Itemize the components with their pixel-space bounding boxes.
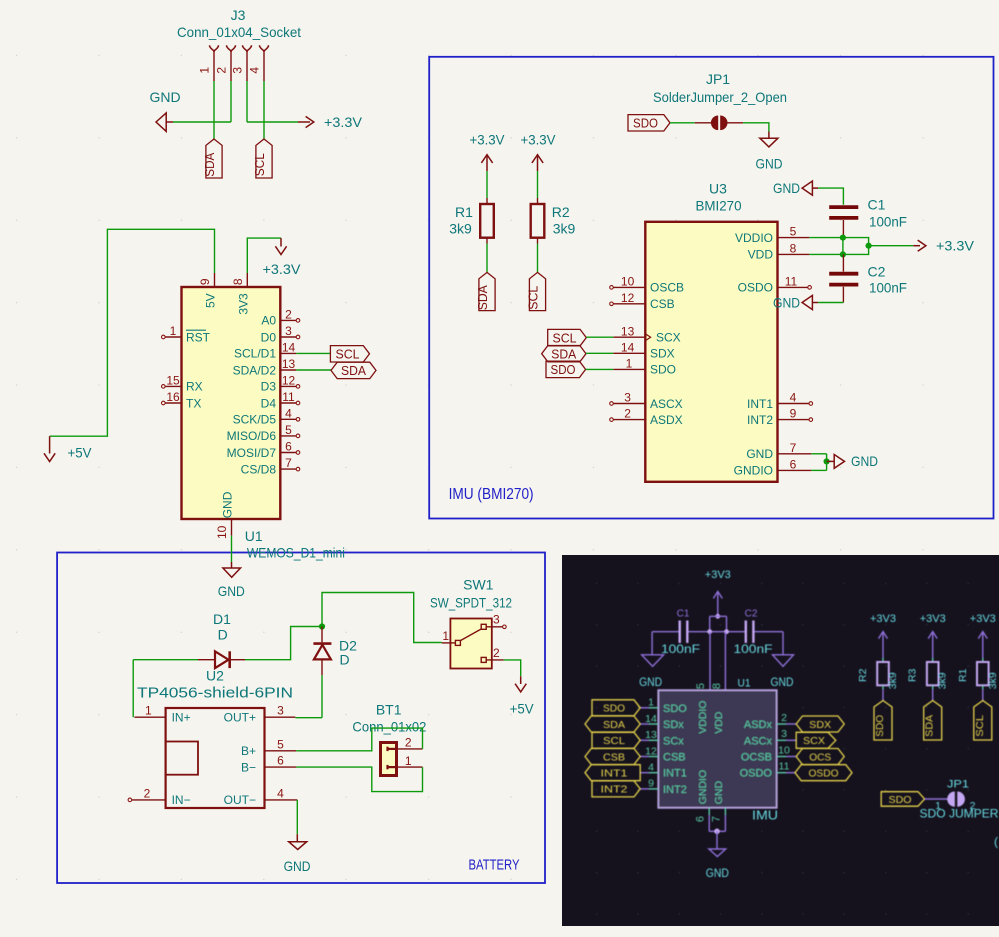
svg-text:IMU (BMI270): IMU (BMI270) [449, 486, 534, 503]
net label SDO at JP1 [628, 115, 670, 131]
net label SCL at U1 [330, 346, 369, 362]
svg-text:4: 4 [790, 391, 797, 405]
svg-text:INT1: INT1 [601, 768, 628, 780]
svg-text:SDA: SDA [341, 363, 366, 378]
svg-text:5: 5 [695, 683, 707, 689]
svg-text:12: 12 [282, 373, 296, 387]
svg-text:SDO: SDO [633, 116, 658, 131]
svg-text:SDX: SDX [809, 719, 831, 731]
dark grid dots [596, 583, 598, 585]
pin 2 of SW1 [481, 657, 486, 662]
svg-text:2: 2 [405, 736, 412, 750]
net label SDA at U1 [331, 362, 376, 378]
svg-text:13: 13 [645, 729, 657, 741]
pin 6 (B-) of U2 [265, 766, 297, 768]
wire R2 to label [537, 244, 539, 273]
dark net label SDO under R2 [874, 701, 892, 741]
svg-text:3k9: 3k9 [987, 672, 999, 689]
svg-text:+3V3: +3V3 [705, 569, 731, 581]
wire +3.3V to R2 [537, 171, 539, 198]
svg-text:+3.3V: +3.3V [521, 132, 557, 148]
dark net label INT2 left [592, 781, 640, 797]
pin 2 (IN-) of U2 [132, 799, 166, 801]
wire D1 to D2 junction [245, 627, 322, 660]
dark wire R2 to label [882, 689, 884, 701]
svg-text:+3.3V: +3.3V [936, 238, 975, 254]
power symbol GND under JP1 [768, 132, 770, 139]
svg-text:TP4056-shield-6PIN: TP4056-shield-6PIN [137, 685, 293, 701]
svg-text:BATTERY: BATTERY [469, 856, 520, 873]
svg-text:R1: R1 [455, 204, 473, 220]
connector BT1 body [381, 743, 397, 776]
svg-text:RST: RST [186, 330, 211, 344]
power symbol +5V at SW1 [520, 676, 522, 684]
svg-text:2: 2 [144, 787, 151, 801]
svg-text:IMU: IMU [752, 808, 778, 823]
svg-text:SolderJumper_2_Open: SolderJumper_2_Open [653, 89, 787, 105]
dark pin 9 (INT2) left [649, 788, 658, 790]
svg-text:D: D [218, 627, 228, 643]
svg-text:SCL: SCL [336, 347, 360, 362]
svg-text:CSB: CSB [663, 752, 686, 764]
dark pin 1 (SDO) left [649, 707, 658, 709]
svg-text:VDDIO: VDDIO [697, 701, 709, 734]
dark GND symbol right [782, 632, 784, 655]
svg-text:9: 9 [198, 278, 212, 285]
dark pin 10 (OCSB) right [777, 756, 786, 758]
svg-text:U1: U1 [738, 677, 751, 689]
dark IC U1 IMU body [658, 690, 776, 808]
svg-text:+5V: +5V [68, 444, 93, 460]
dark net label CSB left [585, 749, 640, 765]
svg-text:14: 14 [645, 713, 657, 725]
wire U1 SDA/D2 to SDA label [296, 369, 331, 371]
dark +3V3 arrow R2 [879, 632, 888, 639]
svg-text:MISO/D6: MISO/D6 [227, 429, 277, 443]
dark net label SCL left [592, 732, 640, 748]
junction at U3 GND [824, 458, 830, 464]
svg-text:7: 7 [790, 441, 797, 455]
svg-text:SDA: SDA [924, 715, 936, 737]
dark junction left [707, 629, 712, 634]
pin 4 (SCK/D5) of U1 [280, 418, 296, 420]
svg-text:100nF: 100nF [869, 214, 907, 230]
svg-text:GNDIO: GNDIO [697, 770, 709, 804]
net label SCL under R2 [529, 272, 545, 310]
junction at VDD C2 [840, 251, 846, 257]
svg-text:SCL: SCL [252, 153, 267, 176]
svg-text:+3.3V: +3.3V [263, 261, 302, 277]
svg-text:SW_SPDT_312: SW_SPDT_312 [430, 595, 512, 611]
junction at D1 D2 SW1 [319, 623, 325, 629]
wire R1 to label [486, 244, 488, 273]
svg-text:R3: R3 [907, 668, 919, 682]
svg-text:GND: GND [221, 491, 235, 518]
svg-text:GND: GND [851, 453, 878, 469]
svg-text:RX: RX [186, 380, 203, 394]
dark +3V3 arrow R3 [928, 632, 937, 639]
svg-text:R1: R1 [957, 668, 969, 682]
net label SDO at U3 [546, 361, 586, 377]
IC U2 TP4056 body [166, 708, 265, 808]
junction at +3.3V takeoff [866, 243, 872, 249]
svg-text:11: 11 [282, 390, 295, 404]
svg-text:12: 12 [645, 745, 657, 757]
svg-text:C2: C2 [868, 263, 886, 279]
pin 13 (SDA/D2) of U1 [280, 369, 296, 371]
svg-text:GND: GND [149, 89, 180, 105]
dark wire +3V3 tee [710, 615, 727, 617]
svg-text:1: 1 [405, 754, 412, 768]
pin 6 (MOSI/D7) of U1 [280, 452, 296, 454]
svg-text:JP1: JP1 [947, 779, 969, 791]
svg-text:GND: GND [771, 677, 794, 689]
pin 12 (CSB) of U3 [613, 303, 645, 305]
svg-text:D1: D1 [213, 611, 231, 627]
svg-text:VDD: VDD [748, 248, 774, 262]
power symbol GND below U2 [296, 834, 298, 842]
svg-text:D4: D4 [261, 396, 277, 410]
pin 10 (GND) of U1 [231, 519, 233, 536]
svg-text:ASDx: ASDx [744, 719, 773, 731]
pin 10 (OSCB) of U3 [613, 286, 645, 288]
dark net label SDA under R3 [924, 701, 942, 741]
svg-text:OUT+: OUT+ [224, 711, 256, 725]
net label SDA under R1 [479, 272, 495, 310]
dark resistor R3 [932, 658, 934, 662]
svg-text:3: 3 [624, 391, 631, 405]
dark wire power bus [652, 631, 679, 633]
dark resistor R1 [982, 658, 984, 662]
svg-text:3V3: 3V3 [236, 293, 250, 315]
pin 12 (D3) of U1 [280, 385, 296, 387]
svg-text:INT1: INT1 [663, 768, 687, 780]
pin 8 (VDD) of U3 [778, 253, 810, 255]
dark wire R3 to label [932, 689, 934, 701]
power symbol +5V [49, 436, 51, 453]
dark capacitor C1 [679, 621, 681, 643]
pin 3 (D0) of U1 [280, 336, 296, 338]
svg-text:GND: GND [218, 583, 245, 599]
diode D1 [198, 659, 215, 661]
svg-text:16: 16 [166, 390, 180, 404]
svg-text:GND: GND [746, 447, 773, 461]
dark pin 12 (CSB) left [649, 756, 658, 758]
svg-text:8: 8 [790, 241, 797, 255]
svg-text:J3: J3 [231, 7, 246, 23]
wire GND vertical join [826, 454, 828, 471]
svg-text:GND: GND [713, 781, 725, 805]
dark GND symbol bottom [716, 831, 718, 849]
svg-text:SDO: SDO [603, 703, 625, 715]
wire GND to C1 [818, 188, 843, 205]
svg-text:INT2: INT2 [601, 784, 628, 796]
svg-text:5V: 5V [204, 293, 218, 308]
svg-text:SCL: SCL [603, 735, 625, 747]
dark pin 13 (SCx) left [649, 739, 658, 741]
svg-text:SDO JUMPER: SDO JUMPER [920, 807, 999, 821]
svg-text:SCX: SCX [803, 735, 825, 747]
svg-text:TX: TX [186, 396, 201, 410]
dark GND symbol left [651, 632, 653, 655]
svg-text:BMI270: BMI270 [696, 198, 742, 214]
svg-text:C1: C1 [677, 609, 690, 620]
pin 4 (INT1) of U3 [778, 403, 810, 405]
svg-text:GND: GND [756, 156, 783, 172]
dark +3V3 arrow [713, 591, 722, 598]
wire U3 GND pin [811, 453, 826, 455]
svg-text:JP1: JP1 [706, 71, 730, 87]
wire D1 to IN+ [132, 660, 134, 718]
pin 6 (GNDIO) of U3 [778, 469, 812, 471]
svg-text:SCK/D5: SCK/D5 [233, 413, 277, 427]
power symbol GND right-pointing at U3 [827, 460, 835, 462]
svg-text:1: 1 [170, 324, 177, 338]
wire SW1 pin2 to +5V [504, 660, 521, 676]
dark net label INT1 left [585, 765, 640, 781]
dark capacitor C2 [745, 621, 747, 643]
svg-text:9: 9 [790, 407, 797, 421]
dark net label SDO at JP1 [881, 792, 924, 807]
svg-text:CS/D8: CS/D8 [241, 462, 277, 476]
pin 11 (D4) of U1 [280, 402, 296, 404]
junction at VDDIO C1 [840, 235, 846, 241]
wire SDA label to U3 SDX [586, 352, 613, 354]
svg-text:GND: GND [639, 677, 662, 689]
dark pin 11 (OSDO) right [777, 772, 786, 774]
svg-text:WEMOS_D1_mini: WEMOS_D1_mini [247, 545, 345, 561]
svg-text:SDO: SDO [551, 362, 576, 377]
pin 8 (3V3) of U1 [246, 273, 248, 287]
pin 2 of BT1 [398, 748, 423, 750]
wire J3 pin4 to SCL label [263, 81, 265, 139]
resistor R2 [531, 204, 545, 238]
svg-text:14: 14 [282, 340, 296, 354]
pin 16 (TX) of U1 [165, 402, 181, 404]
dark net label SDX right [796, 716, 844, 732]
U2 USB connector square [166, 742, 198, 775]
wire C1 to C2 vertical [842, 238, 844, 255]
svg-text:SCX: SCX [656, 331, 681, 345]
svg-text:D0: D0 [261, 330, 277, 344]
svg-text:3k9: 3k9 [937, 672, 949, 689]
svg-text:A0: A0 [261, 314, 276, 328]
svg-text:GNDIO: GNDIO [734, 464, 773, 478]
svg-text:SW1: SW1 [463, 577, 494, 593]
connector J3 socket pin 1 [210, 45, 219, 51]
svg-text:100nF: 100nF [869, 279, 907, 295]
capacitor C2 [842, 254, 844, 271]
svg-text:MOSI/D7: MOSI/D7 [227, 446, 277, 460]
svg-text:OSDO: OSDO [809, 768, 839, 780]
svg-text:INT2: INT2 [747, 413, 773, 427]
svg-text:7: 7 [711, 816, 723, 822]
svg-text:5: 5 [277, 737, 284, 751]
pin 11 (OSDO) of U3 [778, 286, 808, 288]
svg-text:+3V3: +3V3 [920, 613, 946, 625]
wire U1 3V3 pin to +3.3V [247, 238, 281, 273]
power symbol GND left-pointing below C2 [802, 295, 812, 309]
pin 7 (CS/D8) of U1 [280, 468, 296, 470]
power symbol +3.3V at U1 [280, 238, 282, 246]
svg-text:7: 7 [285, 456, 292, 470]
dark junction GND [714, 829, 720, 835]
svg-text:6: 6 [790, 457, 797, 471]
IC U3 BMI270 body [645, 222, 777, 482]
svg-text:GND: GND [284, 858, 311, 874]
svg-text:SDx: SDx [663, 719, 684, 731]
wire to +3.3V arrow [869, 245, 914, 247]
svg-text:2: 2 [781, 712, 787, 724]
svg-text:+5V: +5V [510, 700, 535, 716]
svg-text:VDD: VDD [713, 711, 725, 734]
power symbol GND left-pointing above C1 [802, 181, 812, 195]
svg-text:U2: U2 [206, 667, 224, 683]
diode D2 [321, 627, 323, 643]
svg-text:SCx: SCx [663, 735, 684, 747]
wire JP1 to GND [743, 123, 769, 132]
pin 3 (ASCX) of U3 [613, 403, 645, 405]
dark pin 14 (SDx) left [649, 723, 658, 725]
dark wire R1 to label [982, 689, 984, 701]
svg-text:B+: B+ [241, 744, 256, 758]
dark wire GNDIO down [708, 808, 710, 815]
dark resistor R2 [882, 658, 884, 662]
svg-text:ASCX: ASCX [650, 397, 683, 411]
svg-text:11: 11 [779, 761, 790, 773]
svg-text:+3V3: +3V3 [870, 613, 896, 625]
dark +3V3 arrow R1 [978, 632, 987, 639]
dark pin 4 (INT1) left [649, 772, 658, 774]
svg-text:9: 9 [648, 778, 654, 790]
svg-text:15: 15 [166, 373, 180, 387]
svg-text:C2: C2 [745, 609, 758, 620]
dark wire VDDIO down [709, 632, 711, 691]
dark wire GND down [724, 808, 726, 815]
svg-text:BT1: BT1 [376, 702, 402, 718]
svg-text:4: 4 [285, 406, 292, 420]
svg-text:3: 3 [285, 324, 292, 338]
svg-text:D3: D3 [261, 380, 277, 394]
pin 3 of SW1 [481, 624, 486, 629]
wire J3 pin1 to SDA label [213, 81, 215, 139]
svg-text:SDO: SDO [889, 794, 912, 806]
svg-text:SDA: SDA [475, 285, 490, 310]
pin 9 (INT2) of U3 [778, 419, 810, 421]
dark net label SDO left [592, 700, 640, 716]
pin 9 (5V) of U1 [214, 273, 216, 287]
svg-text:4: 4 [277, 787, 284, 801]
wire U1 5V pin to +5V [214, 273, 216, 287]
svg-text:Conn_01x02: Conn_01x02 [352, 718, 426, 734]
svg-text:VDDIO: VDDIO [735, 231, 773, 245]
IC U1 WEMOS_D1_mini body [182, 287, 281, 519]
svg-text:SCL: SCL [526, 286, 541, 310]
capacitor C1 [829, 205, 858, 209]
svg-text:GND: GND [773, 295, 800, 311]
svg-text:SCL: SCL [553, 330, 577, 345]
wire SCL label to U3 SCX [586, 336, 613, 338]
svg-text:3k9: 3k9 [449, 220, 472, 236]
svg-text:CSB: CSB [650, 297, 675, 311]
pin 14 (SDX) of U3 [613, 352, 645, 354]
pin 15 (RX) of U1 [165, 385, 181, 387]
svg-text:U3: U3 [709, 180, 727, 196]
switch SW1 lever [460, 629, 481, 641]
connector J3 socket pin 4 [260, 45, 269, 51]
svg-text:8: 8 [231, 278, 245, 285]
svg-text:OSDO: OSDO [740, 768, 773, 780]
dark wire SDO to jumper [925, 798, 948, 800]
dark net label SDA left [585, 716, 640, 732]
BT1 contact pin 2 [388, 748, 397, 750]
svg-text:CSB: CSB [603, 751, 625, 763]
wire C2 to GND [818, 302, 843, 304]
wire IN+ to D1 [133, 659, 198, 661]
svg-text:10: 10 [778, 744, 790, 756]
solder jumper JP1 pads [695, 122, 711, 124]
dark net label SCX right [796, 732, 836, 748]
svg-text:3: 3 [231, 67, 245, 74]
resistor R1 [480, 204, 494, 238]
svg-text:SDO: SDO [663, 703, 687, 715]
svg-text:2: 2 [215, 67, 229, 74]
svg-text:SDO: SDO [650, 363, 676, 377]
svg-text:U1: U1 [245, 528, 263, 544]
RST overline [186, 329, 206, 331]
pin 1 (IN+) of U2 [134, 716, 165, 718]
power symbol +3.3V right of J3 [298, 121, 310, 123]
svg-text:11: 11 [785, 275, 798, 289]
svg-text:13: 13 [282, 357, 296, 371]
power symbol GND left of J3 [156, 113, 166, 131]
svg-text:10: 10 [621, 275, 635, 289]
connector J3 socket pin 3 [243, 45, 252, 51]
svg-text:3k9: 3k9 [887, 672, 899, 689]
wire SDO label to JP1 [670, 122, 695, 124]
wire B+ to BT1 pin2 [296, 728, 422, 751]
net label SDA below J3 [206, 139, 222, 178]
svg-text:2: 2 [624, 407, 631, 421]
net label SDA at U3 [542, 346, 586, 362]
svg-text:ASCx: ASCx [744, 735, 773, 747]
pin 1 (SDO) of U3 [613, 368, 645, 370]
svg-text:IN+: IN+ [172, 711, 191, 725]
dark pin 2 (ASDx) right [777, 723, 786, 725]
graphic box BATTERY section [57, 553, 545, 884]
wire OUT+ to D2 [295, 717, 322, 719]
wire U3 GNDIO pin [811, 469, 826, 471]
svg-text:C1: C1 [868, 197, 886, 213]
wire VDD row to +3.3V [809, 253, 843, 255]
svg-text:SCL: SCL [974, 715, 986, 737]
svg-text:2: 2 [285, 307, 292, 321]
pin 4 (OUT-) of U2 [265, 799, 298, 801]
dark wire VDD down [724, 632, 726, 691]
svg-text:IN−: IN− [172, 793, 191, 807]
svg-text:100nF: 100nF [734, 644, 773, 656]
wire B- to BT1 pin1 [296, 767, 422, 792]
dark net label SCL under R1 [974, 701, 992, 741]
svg-text:+3V3: +3V3 [970, 613, 996, 625]
pin 1 (RST) of U1 [165, 336, 181, 338]
dark wire GND join [709, 830, 725, 832]
svg-text:1: 1 [648, 697, 654, 709]
wire SDO label to U3 SDO [586, 368, 614, 370]
wire junction to SW1 [322, 593, 442, 643]
pin 7 (GND) of U3 [778, 453, 812, 455]
svg-text:13: 13 [621, 324, 635, 338]
